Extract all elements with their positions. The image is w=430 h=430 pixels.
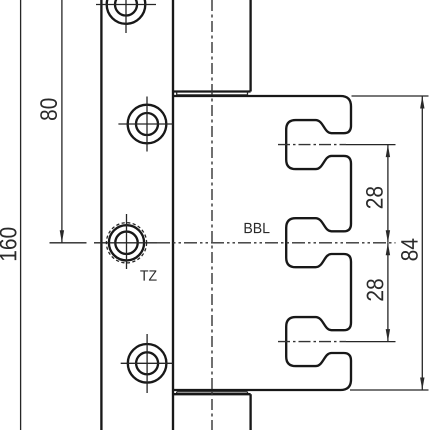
frame leaf comb body outline with three slots (173, 96, 351, 390)
screw hole top (cut off) (96, 0, 156, 33)
slot 1 centerline (278, 144, 346, 146)
dimension text 28 upper (366, 187, 383, 208)
arrowhead 84 bottom (420, 378, 424, 391)
arrowhead 28 lower top (386, 243, 390, 256)
TZ hole with dashed circle (94, 214, 157, 269)
arrowhead 84 top (420, 96, 424, 109)
screw hole upper middle (118, 97, 173, 152)
dimension text 160 (0, 228, 17, 261)
BBL reference line (157, 242, 396, 244)
hinge leaf plate left edge (100, 0, 102, 430)
extension line bottom edge (84 dim) (350, 389, 429, 391)
bottom knuckle weld flange (177, 392, 248, 394)
screw hole bottom (121, 334, 173, 393)
dimension line 28 upper (387, 145, 389, 243)
arrowhead 28 upper top (386, 145, 390, 158)
top knuckle weld flange (177, 92, 248, 95)
label TZ (140, 270, 156, 280)
arrowhead 80 down (60, 230, 64, 243)
arrowhead 28 lower bottom (386, 329, 390, 342)
label BBL (245, 223, 270, 233)
arrowhead 28 upper bottom (386, 230, 390, 243)
dimension line 84 (421, 96, 423, 390)
BBL extension tick (80 dim target) (50, 242, 87, 244)
top knuckle barrel (173, 0, 251, 92)
hinge axis centerline (211, 0, 213, 430)
bottom knuckle barrel (173, 394, 251, 430)
extension line top edge (84 dim) (352, 95, 429, 97)
hinge leaf plate right edge (172, 0, 174, 430)
slot 3 centerline (278, 341, 346, 343)
dimension text 80 (40, 98, 57, 120)
dimension text 28 lower (367, 279, 384, 300)
dimension line 28 lower (387, 243, 389, 342)
dimension line 160 (20, 0, 22, 430)
dimension text 84 (401, 239, 418, 261)
dimension line 80 (61, 0, 63, 243)
